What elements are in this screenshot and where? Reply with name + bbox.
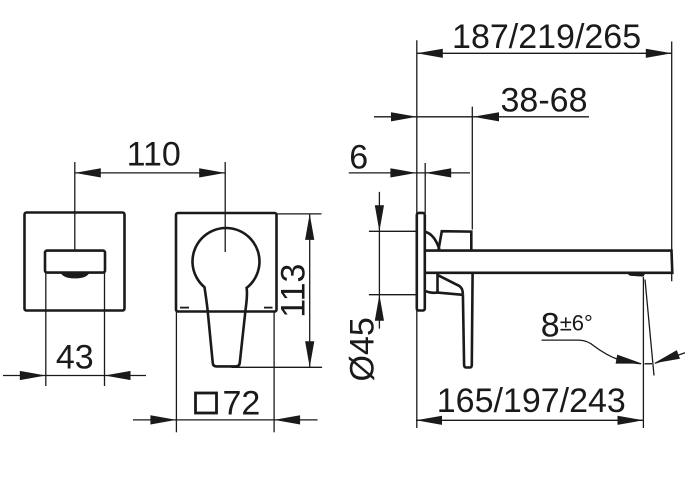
svg-text:187/219/265: 187/219/265 xyxy=(452,18,641,56)
arrow 72 right xyxy=(274,415,300,424)
arrow 110 right xyxy=(199,168,225,177)
svg-text:Ø45: Ø45 xyxy=(344,317,382,381)
svg-text:165/197/243: 165/197/243 xyxy=(437,382,626,420)
arrow 113 bottom xyxy=(305,341,314,367)
plate bottom tick left xyxy=(180,307,189,309)
aerator lens front xyxy=(61,272,89,278)
extension line d45 top xyxy=(369,230,417,232)
svg-text:110: 110 xyxy=(127,136,181,174)
middle square wall plate (mixer front view) xyxy=(176,213,277,312)
centerline left spout xyxy=(74,162,76,251)
dimension line 110 xyxy=(75,172,225,174)
dimension line 38-68 xyxy=(374,116,589,118)
dimension line 113 xyxy=(309,214,311,367)
extension line 43 left xyxy=(45,273,47,386)
lever handle front (keyhole shape) xyxy=(192,228,259,366)
extension line 6 right short xyxy=(424,163,426,213)
svg-text:113: 113 xyxy=(275,264,313,318)
extension line 187 right / spout tip xyxy=(671,42,673,282)
dimension line 187/219/265 xyxy=(417,52,672,54)
extension line 187 left / wall face vertical xyxy=(416,40,418,428)
arrow 165 right xyxy=(618,416,644,425)
svg-text:72: 72 xyxy=(223,385,261,423)
extension line 72 right xyxy=(273,312,275,433)
arrow 43 right xyxy=(105,371,131,380)
side view: lever top slant xyxy=(438,275,463,295)
arrow d45 top xyxy=(375,205,384,231)
arrow 165 left xyxy=(416,416,442,425)
extension line 43 right xyxy=(104,273,106,386)
arrow 6 left xyxy=(390,168,416,177)
dimension line 72 xyxy=(133,419,318,421)
side view: lower fillet curve plate to lever base xyxy=(425,291,438,293)
dimension line 165/197/243 xyxy=(416,419,644,421)
svg-text:43: 43 xyxy=(56,339,94,377)
side view: lever base left edge xyxy=(436,273,439,293)
arrow 43 left xyxy=(20,371,46,380)
spout front face xyxy=(45,251,105,273)
svg-text:38-68: 38-68 xyxy=(501,82,588,120)
side view: wall plate edge xyxy=(417,213,425,311)
arrow 38-68 left xyxy=(391,112,417,121)
side view: lever base bottom edge xyxy=(438,293,463,295)
extension line d45 bottom xyxy=(369,294,417,296)
left square wall plate (spout front view) xyxy=(25,213,125,311)
side view: lever bar xyxy=(463,273,473,368)
side view: upper fillet curve plate to body xyxy=(425,232,440,250)
angle arrow left xyxy=(616,355,642,364)
vertical reference line at aerator xyxy=(642,277,644,428)
extension line 72 left xyxy=(175,312,177,433)
angle arc right tail xyxy=(655,353,685,363)
side view: upper body trapezoid xyxy=(438,231,471,250)
side view: spout bar xyxy=(425,251,673,273)
arrow 113 top xyxy=(305,214,314,240)
extension line 38-68 right xyxy=(471,107,473,230)
dimension line 6 xyxy=(349,172,470,174)
svg-text:6: 6 xyxy=(349,139,368,177)
arrow 38-68 right xyxy=(473,112,499,121)
arrow 187 left xyxy=(417,49,443,58)
centerline mixer xyxy=(224,162,226,252)
arrow d45 bottom xyxy=(375,295,384,321)
arrow 6 right xyxy=(425,168,451,177)
angle arc middle segment xyxy=(645,363,653,365)
extension line 113 bottom xyxy=(232,366,323,368)
plate bottom tick right xyxy=(264,307,273,309)
arrow 187 right xyxy=(646,49,672,58)
arrow 72 left xyxy=(150,415,176,424)
dimension line d45 xyxy=(378,192,380,329)
dimension line 43 xyxy=(3,375,146,377)
arrow 110 left xyxy=(75,168,101,177)
angle arrow right xyxy=(654,350,680,363)
angle leader and arc from 8+-6 text xyxy=(542,340,641,364)
extension line 113 top xyxy=(277,213,322,215)
side view: aerator wedge xyxy=(626,273,646,277)
label square 72 xyxy=(196,393,217,413)
slanted stream line 8deg xyxy=(645,280,654,376)
